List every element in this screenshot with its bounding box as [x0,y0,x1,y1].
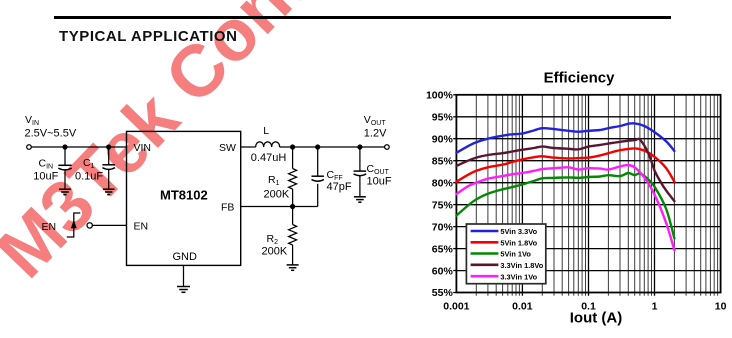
watermark M3Tek Confidential [0,0,502,294]
capacitor CIN [58,147,71,189]
svg-text:200K: 200K [262,245,288,257]
curve 3.3Vin 1Vo [456,165,674,250]
svg-text:5Vin 1.8Vo: 5Vin 1.8Vo [500,238,537,247]
curve 5Vin 1Vo [456,173,674,239]
svg-text:3.3Vin 1Vo: 3.3Vin 1Vo [500,272,537,281]
svg-text:1.2V: 1.2V [364,128,387,140]
ground under CIN [59,189,71,194]
svg-text:C1: C1 [83,157,95,170]
efficiency chart gridlines [476,95,717,296]
inductor L [256,142,280,147]
svg-text:10: 10 [715,300,727,312]
svg-text:GND: GND [173,251,198,263]
svg-text:0.001: 0.001 [443,300,469,312]
ground under IC [177,287,190,293]
svg-text:MT8102: MT8102 [160,187,208,202]
svg-text:EN: EN [134,220,149,232]
svg-text:Efficiency: Efficiency [544,69,616,86]
resistor R1 [289,147,297,207]
wire FB to divider [241,206,318,208]
svg-text:75%: 75% [432,199,454,211]
svg-text:47pF: 47pF [327,181,352,193]
svg-text:0.1uF: 0.1uF [75,171,103,183]
svg-text:1: 1 [652,300,658,312]
op-amp U1 MT8102 IC box [127,131,241,265]
svg-text:R1: R1 [268,174,280,187]
svg-text:VIN: VIN [134,142,152,154]
svg-text:CIN: CIN [39,158,54,171]
y axis ticks [453,95,456,293]
svg-text:EN: EN [42,221,57,233]
svg-text:80%: 80% [432,177,454,189]
svg-text:10uF: 10uF [33,171,58,183]
svg-text:R2: R2 [267,233,279,246]
curve 5Vin 1.8Vo [456,148,674,181]
wire GND pin [183,265,185,286]
junction FB node [290,204,295,209]
svg-text:70%: 70% [432,221,454,233]
svg-text:Iout (A): Iout (A) [570,310,622,327]
ground under C1 [103,189,115,194]
chart legend [466,224,545,284]
svg-text:65%: 65% [432,243,454,255]
chart y axis labels [426,90,454,300]
EN switch symbol [67,213,81,237]
svg-text:0.47uH: 0.47uH [251,152,287,164]
junction at COUT [357,144,362,149]
wire EN to pin [93,224,127,226]
section heading [59,28,238,45]
curve 5Vin 3.3Vo [456,123,674,153]
junction at R1 [290,144,295,149]
svg-text:10uF: 10uF [367,175,392,187]
capacitor COUT [354,147,367,197]
header rule [54,16,671,19]
wire input rail to VIN pin [31,146,126,148]
resistor R2 [289,207,297,265]
svg-text:85%: 85% [432,155,454,167]
svg-text:L: L [263,125,269,137]
svg-text:200K: 200K [264,188,290,200]
svg-text:0.01: 0.01 [512,300,533,312]
junction at CFF [315,144,320,149]
wire output rail [280,146,385,148]
junction at CIN [62,144,67,149]
wire SW pin to inductor [241,146,256,148]
node VOUT output terminal [385,145,390,150]
svg-text:5Vin 1Vo: 5Vin 1Vo [500,250,531,259]
chart x axis labels [443,300,726,312]
node VIN input terminal [27,145,32,150]
junction at C1 [106,144,111,149]
svg-text:100%: 100% [426,90,454,102]
svg-text:SW: SW [219,142,236,154]
svg-text:5Vin 3.3Vo: 5Vin 3.3Vo [500,227,537,236]
efficiency chart axis frame [456,95,720,293]
svg-text:COUT: COUT [367,163,390,176]
ground under R2 [287,265,299,270]
svg-text:55%: 55% [432,287,454,299]
svg-text:95%: 95% [432,112,454,124]
svg-text:60%: 60% [432,265,454,277]
capacitor C1 [102,147,115,189]
svg-text:3.3Vin 1.8Vo: 3.3Vin 1.8Vo [500,261,543,270]
svg-text:90%: 90% [432,133,454,145]
capacitor CFF [312,147,324,207]
node EN terminal circle [87,223,92,228]
svg-text:2.5V~5.5V: 2.5V~5.5V [25,128,77,140]
curve 3.3Vin 1.8Vo [456,139,674,201]
svg-text:VIN: VIN [25,114,39,127]
svg-text:VOUT: VOUT [364,114,387,127]
svg-text:FB: FB [221,201,234,213]
ground under COUT [354,197,366,202]
